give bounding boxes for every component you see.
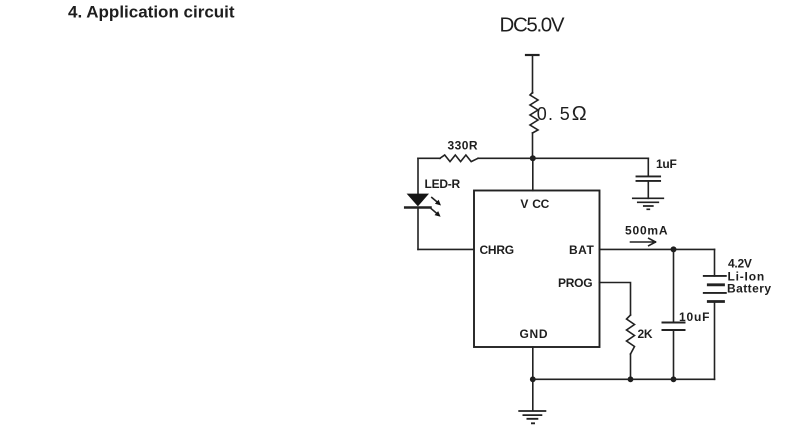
node 10uF junction dot	[671, 376, 677, 382]
power terminal bar DC5.0V	[526, 54, 539, 56]
LED D1 cathode bar	[405, 206, 430, 209]
LED emission arrow 1	[432, 198, 441, 206]
wire: capacitor C1 to ground	[647, 181, 649, 198]
node GND junction dot	[530, 376, 536, 382]
svg-text:1uF: 1uF	[656, 157, 677, 171]
svg-text:330R: 330R	[448, 139, 479, 153]
wire: battery branch down	[714, 249, 716, 276]
current direction arrow	[631, 238, 656, 245]
node 2K junction dot	[628, 376, 634, 382]
capacitor C2 10uF plates	[663, 323, 685, 331]
ground (1uF branch)	[633, 198, 664, 209]
LED D1 (anode triangle)	[407, 194, 429, 207]
svg-text:10uF: 10uF	[679, 310, 710, 324]
LED emission arrow 2	[431, 209, 440, 217]
wire: PROG pin to resistor 2K	[600, 283, 631, 316]
wire: ground bus	[533, 378, 715, 380]
IC U1 body	[474, 191, 600, 348]
wire: node VIN right to capacitor C1	[533, 157, 649, 159]
svg-text:0.5: 0.5	[537, 104, 570, 124]
svg-text:4.2V: 4.2V	[728, 257, 752, 271]
wire: DC5.0V terminal to resistor R 0.5ohm	[532, 55, 534, 93]
wire: to CHRG pin of U1	[418, 248, 474, 250]
wire: resistor 2K to ground bus	[630, 354, 632, 379]
wire: 10uF capacitor branch down	[673, 249, 675, 322]
svg-text:Ω: Ω	[572, 103, 587, 125]
wire: 10uF capacitor to ground bus	[673, 330, 675, 379]
svg-text:Battery: Battery	[727, 281, 772, 295]
wire: resistor 330R to node VIN	[478, 157, 533, 159]
wire: GND pin down	[532, 347, 534, 379]
node BAT junction dot	[671, 246, 677, 252]
wire: LED column down from 330R wire	[417, 158, 419, 194]
svg-text:500mA: 500mA	[625, 224, 668, 238]
wire: resistor 0.5ohm to node VIN	[532, 133, 534, 158]
svg-text:BAT: BAT	[569, 243, 594, 257]
svg-text:GND: GND	[520, 327, 549, 341]
wire: battery bottom to ground bus	[714, 302, 716, 380]
svg-text:VCC: VCC	[520, 197, 549, 211]
svg-text:4. Application circuit: 4. Application circuit	[68, 3, 235, 22]
wire: VCC pin from node VIN	[532, 158, 534, 190]
svg-text:DC5.0V: DC5.0V	[500, 13, 565, 36]
node VIN junction dot	[530, 155, 536, 161]
svg-text:LED-R: LED-R	[425, 177, 461, 191]
ground (main)	[519, 411, 545, 423]
svg-text:2K: 2K	[638, 327, 653, 341]
resistor 0.5ohm (zigzag)	[530, 93, 538, 134]
svg-text:PROG: PROG	[558, 276, 592, 290]
wire: LED cathode down to CHRG	[417, 208, 419, 250]
resistor 330R (zigzag)	[440, 155, 478, 162]
wire: down to capacitor C1 top plate	[647, 158, 649, 176]
resistor 2K (zigzag)	[627, 315, 635, 354]
wire: node VIN left toward resistor 330R	[418, 157, 440, 159]
battery BT1 plates	[704, 276, 726, 293]
wire: BAT pin to battery	[600, 248, 715, 250]
wire: ground stub	[532, 379, 534, 410]
svg-text:CHRG: CHRG	[480, 243, 514, 257]
capacitor C1 1uF plates	[637, 176, 661, 181]
